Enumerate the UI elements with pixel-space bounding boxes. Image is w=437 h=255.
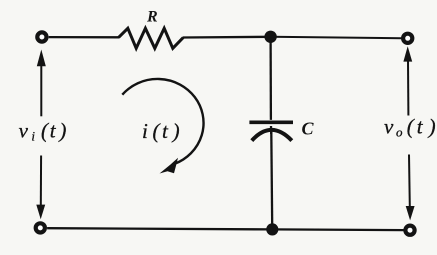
resistor R	[119, 28, 184, 48]
node: bottom junction	[266, 223, 278, 235]
arrowhead: v_o down	[406, 206, 415, 220]
capacitor C curved plate	[252, 130, 292, 141]
wire: v_i arrow shaft lower	[40, 156, 42, 207]
arrowhead: v_i up	[37, 50, 46, 67]
wire: v_o arrow shaft upper	[407, 60, 409, 116]
wire: top junction to capacitor	[269, 40, 272, 120]
capacitor C top plate	[249, 121, 293, 125]
node: top junction	[264, 31, 276, 43]
wire: capacitor to bottom junction	[270, 132, 273, 226]
loop arrow arc i(t)	[122, 79, 203, 164]
wire: bottom rail left	[47, 228, 272, 229]
svg-text:i(t): i(t)	[142, 119, 180, 143]
terminal bottom-left	[36, 223, 45, 232]
wire: bottom rail right	[272, 228, 403, 231]
wire: capacitor stub	[270, 126, 273, 134]
terminal top-right	[403, 34, 412, 43]
arrowhead: v_o up	[403, 46, 412, 61]
terminal top-left	[37, 32, 46, 41]
arrowhead: v_i down	[36, 205, 45, 220]
svg-text:vi(t): vi(t)	[19, 119, 67, 144]
arrowhead: loop arrow	[160, 158, 179, 174]
wire: top-left terminal to resistor	[49, 36, 120, 39]
terminal bottom-right	[405, 226, 414, 235]
wire: v_o arrow shaft lower	[408, 155, 411, 207]
svg-text:vo(t): vo(t)	[384, 114, 436, 139]
wire: top junction to top-right terminal	[271, 37, 402, 38]
svg-text:R: R	[146, 9, 158, 26]
svg-text:C: C	[302, 118, 315, 138]
wire: resistor to top junction	[183, 36, 271, 39]
wire: v_i arrow shaft upper	[40, 64, 42, 116]
